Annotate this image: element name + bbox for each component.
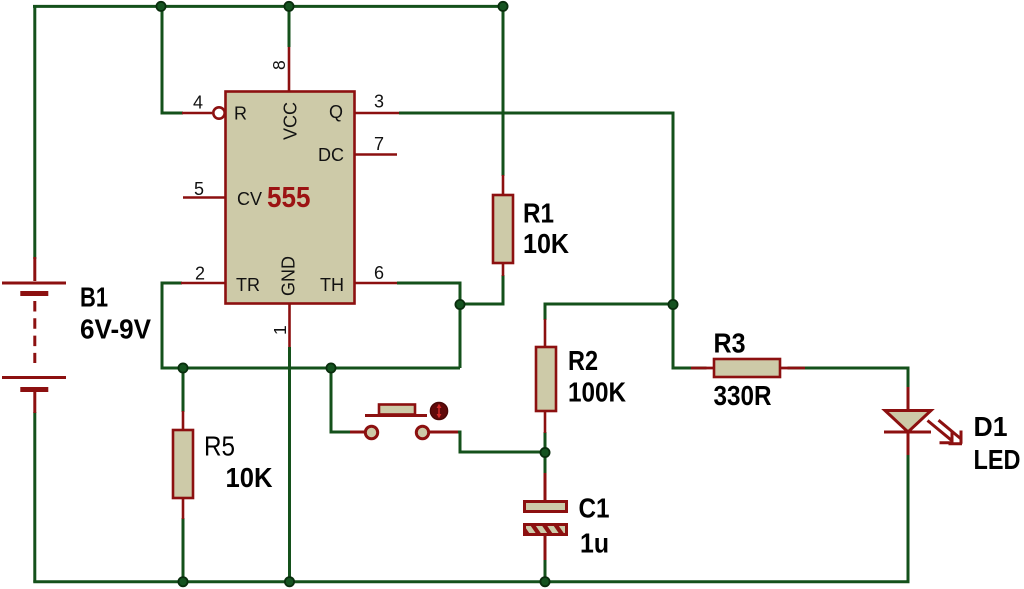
svg-text:VCC: VCC	[281, 102, 301, 140]
node dot top rail 2	[284, 2, 293, 11]
svg-text:CV: CV	[237, 189, 262, 209]
svg-text:D1: D1	[974, 411, 1008, 442]
node dot rail R5	[178, 577, 187, 586]
U1 pin 2 stub	[181, 282, 225, 285]
U1 pin 4 bubble	[213, 107, 224, 118]
wire R3 to LED	[788, 368, 909, 388]
D1 emission arrows	[928, 420, 963, 444]
svg-text:GND: GND	[279, 256, 299, 296]
svg-text:R5: R5	[204, 431, 235, 462]
svg-text:B1: B1	[80, 282, 108, 313]
node dot Q R2 R3 junction	[668, 300, 677, 309]
wire button left branch	[331, 368, 351, 432]
svg-text:1u: 1u	[580, 528, 609, 559]
svg-text:10K: 10K	[226, 462, 273, 493]
U1 pin 8 stub	[288, 47, 291, 91]
node dot rail gnd	[285, 577, 294, 586]
wire vcc drop	[288, 6, 291, 47]
wire R1 top drop	[502, 6, 505, 176]
node dot top rail 1	[156, 2, 165, 11]
wire button right to C1 node	[457, 432, 545, 452]
svg-text:R2: R2	[568, 345, 598, 376]
wire reset drop	[162, 6, 183, 113]
wire left rail upper	[33, 5, 36, 259]
wire TH loop	[397, 283, 460, 368]
wire left rail lower	[33, 412, 36, 583]
svg-text:R: R	[234, 104, 247, 124]
wire C1 to rail	[544, 559, 547, 582]
svg-text:LED: LED	[974, 444, 1021, 475]
node dot button branch	[326, 363, 335, 372]
svg-text:6V-9V: 6V-9V	[80, 314, 151, 345]
svg-text:10K: 10K	[523, 228, 569, 259]
U1 pin 1 stub	[288, 303, 291, 347]
svg-text:R3: R3	[714, 328, 746, 359]
diode D1 LED	[884, 387, 931, 455]
resistor R1	[493, 175, 513, 276]
U1 pin 6 stub	[354, 282, 397, 285]
IC U1 555 timer body	[226, 92, 355, 304]
capacitor C1	[517, 473, 577, 560]
svg-text:TR: TR	[236, 275, 260, 295]
svg-text:DC: DC	[318, 145, 344, 165]
push button SW1	[350, 405, 458, 439]
button actuator icon	[430, 402, 447, 419]
wire LED to bottom rail	[907, 454, 910, 583]
battery B1	[2, 257, 66, 413]
U1 pin 7 stub	[354, 153, 397, 156]
svg-text:7: 7	[374, 134, 384, 154]
wire TH node to R1 bottom	[460, 275, 503, 304]
wire R5 to rail	[182, 518, 185, 582]
wire top rail	[33, 5, 504, 8]
node dot C1 top junction	[540, 448, 549, 457]
wire bottom rail	[33, 580, 909, 583]
U1 pin 4 stub	[182, 112, 212, 115]
svg-text:100K: 100K	[568, 377, 626, 408]
resistor R2	[536, 319, 556, 433]
node dot rail C1	[540, 577, 549, 586]
wire Q to R2	[545, 304, 673, 320]
node dot TH junction	[455, 300, 464, 309]
svg-text:C1: C1	[579, 493, 610, 524]
svg-text:5: 5	[194, 179, 204, 199]
U1 pin 3 stub	[354, 112, 399, 115]
U1 pin 5 stub	[183, 196, 225, 199]
wire TR run	[162, 283, 460, 368]
wire gnd drop	[288, 347, 291, 582]
svg-text:2: 2	[195, 264, 205, 284]
svg-text:8: 8	[269, 60, 289, 70]
wire Q to R3	[673, 304, 707, 368]
svg-text:1: 1	[270, 325, 290, 335]
svg-text:Q: Q	[329, 102, 343, 122]
node dot R5 branch	[178, 363, 187, 372]
svg-text:TH: TH	[320, 275, 344, 295]
svg-text:6: 6	[374, 263, 384, 283]
svg-text:555: 555	[267, 182, 311, 214]
wire Q output	[399, 113, 673, 306]
wire R5 branch	[182, 368, 185, 412]
svg-text:330R: 330R	[714, 380, 772, 411]
node dot top rail corner	[498, 2, 507, 11]
svg-text:3: 3	[374, 92, 384, 112]
svg-text:4: 4	[193, 93, 203, 113]
wire R2 bottom	[544, 432, 547, 474]
resistor R3	[691, 359, 805, 377]
resistor R5	[173, 411, 193, 519]
svg-text:R1: R1	[523, 198, 554, 229]
